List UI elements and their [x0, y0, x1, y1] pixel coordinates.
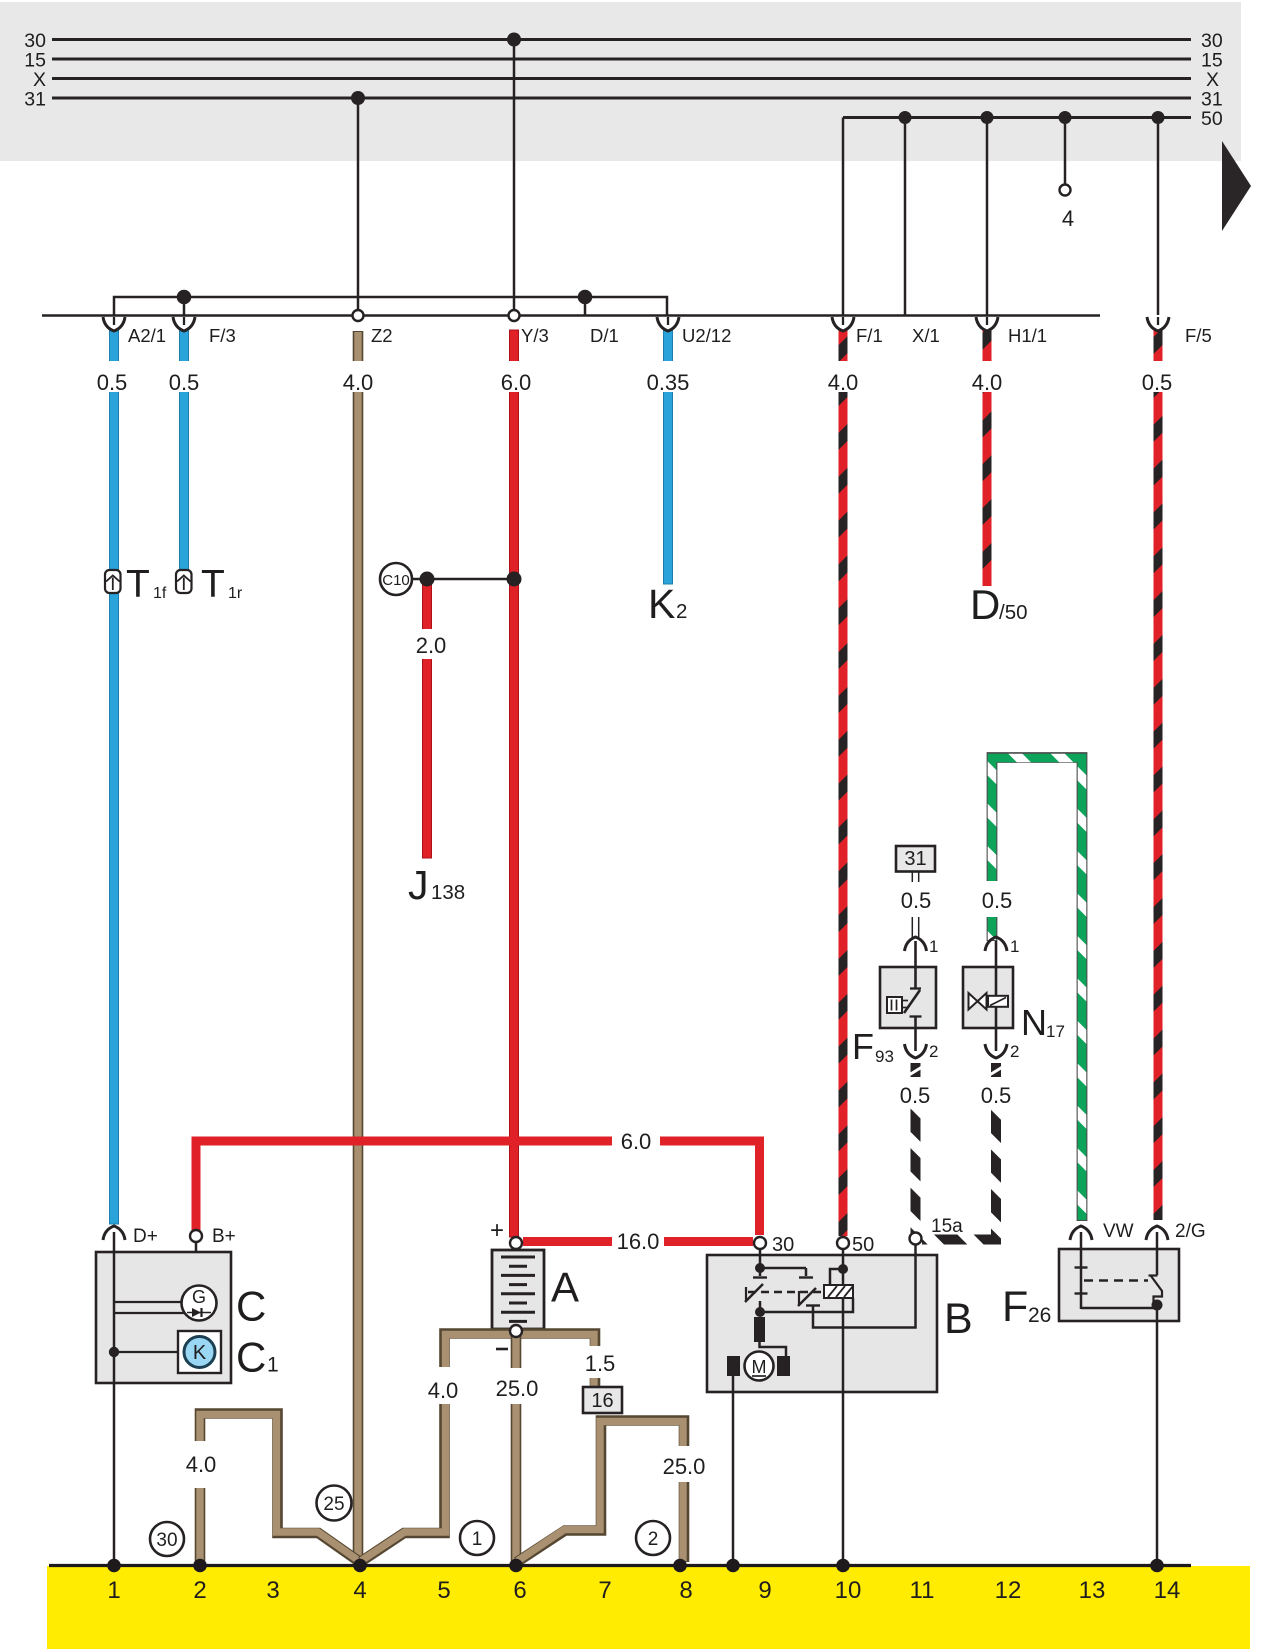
svg-text:Y/3: Y/3 [521, 325, 549, 346]
wire coil to track 10 [842, 1392, 845, 1563]
svg-text:1f: 1f [153, 585, 167, 602]
red wire 16.0 battery to starter 30 [523, 1237, 753, 1246]
track node 10 [836, 1559, 850, 1573]
brown wire track2 loop [200, 1414, 359, 1563]
connector N17 pin2 [985, 1042, 1019, 1061]
svg-text:C: C [236, 1334, 266, 1381]
svg-text:Z2: Z2 [371, 325, 393, 346]
motor M [727, 1352, 790, 1381]
gauge label 1.5 battery right [577, 1346, 615, 1378]
wire B+ into alternator [195, 1243, 198, 1288]
svg-text:4: 4 [1062, 206, 1074, 231]
svg-text:25.0: 25.0 [663, 1454, 706, 1479]
wire bus50 to rail F/5 [1157, 119, 1160, 315]
wire F26 bottom [1081, 1307, 1157, 1310]
gauge label 0.5 N17 bottom [978, 1077, 1015, 1108]
node F26 [1152, 1300, 1163, 1311]
connector F93 pin2 [905, 1042, 939, 1061]
track node 2 [193, 1559, 207, 1573]
green-white wire N17 loop [992, 758, 1082, 1222]
svg-text:4.0: 4.0 [828, 370, 859, 395]
label J138 [408, 862, 465, 908]
svg-text:2: 2 [676, 600, 687, 623]
label minus battery [496, 1348, 508, 1351]
node 4 on bus 50 [1059, 111, 1072, 124]
brown wire ground strap track6 to track8 [517, 1421, 684, 1563]
black stub F93 pin2 [909, 1063, 922, 1078]
brown wire Z2 [353, 331, 364, 1562]
svg-text:138: 138 [431, 881, 465, 904]
bus 50 [843, 116, 1191, 119]
battery A box [492, 1250, 544, 1329]
svg-text:2.0: 2.0 [416, 633, 447, 658]
gauge label 0.35 U2/12 [643, 361, 693, 395]
svg-text:0.5: 0.5 [169, 370, 200, 395]
svg-text:X/1: X/1 [912, 325, 940, 346]
relay coil [824, 1285, 853, 1298]
track node 6 [509, 1559, 523, 1573]
wire C ground to track 1 [113, 1232, 116, 1563]
right arrow [1222, 141, 1251, 231]
gauge label 6.0 Y/3 [496, 361, 536, 395]
gauge label 0.5 F/3 [164, 361, 204, 395]
rail connector F/1 [832, 317, 854, 331]
svg-text:25: 25 [323, 1494, 344, 1515]
svg-text:F/3: F/3 [209, 325, 236, 346]
label N17 [1021, 1002, 1065, 1043]
wire bus31 to rail Z2 [357, 99, 360, 315]
bus labels left [24, 30, 46, 111]
svg-text:30: 30 [156, 1530, 177, 1551]
svg-text:11: 11 [910, 1577, 935, 1604]
connector 2/G [1146, 1226, 1168, 1240]
wire 30 into box [759, 1250, 762, 1267]
fuse F26 box [1059, 1249, 1179, 1321]
switch blade left [745, 1284, 763, 1302]
svg-text:4: 4 [353, 1577, 366, 1604]
svg-text:5: 5 [437, 1577, 450, 1604]
svg-text:31: 31 [904, 848, 926, 870]
brown wire battery 25.0 to track 6 [511, 1335, 522, 1562]
bus 15 [52, 58, 1191, 61]
svg-text:10: 10 [835, 1577, 862, 1604]
wire bus50 to rail X/1 [904, 119, 907, 315]
bus X [52, 77, 1191, 80]
bus labels right [1201, 30, 1223, 130]
track node 4 [353, 1559, 367, 1573]
battery plates [501, 1257, 535, 1321]
red-black wire F/5 [1154, 330, 1163, 1220]
svg-text:0.5: 0.5 [900, 1083, 931, 1108]
bus 31 [52, 97, 1191, 100]
wire C ground inside [113, 1252, 116, 1383]
svg-text:13: 13 [1079, 1577, 1106, 1604]
svg-text:1: 1 [107, 1577, 120, 1604]
wire 50 into box [842, 1250, 845, 1393]
svg-text:0.5: 0.5 [982, 888, 1013, 913]
node C10 at Y/3 [507, 572, 522, 587]
rail terminal Z2 [353, 310, 364, 321]
node C10 red [420, 572, 435, 587]
resistor [754, 1317, 765, 1342]
svg-text:6.0: 6.0 [501, 370, 532, 395]
switch blade right [798, 1288, 816, 1306]
svg-text:50: 50 [852, 1234, 874, 1256]
connector C10 circle [380, 563, 412, 595]
svg-text:1: 1 [267, 1354, 279, 1377]
starter B box [707, 1255, 937, 1392]
tick VW upper [1075, 1266, 1088, 1268]
svg-text:0.5: 0.5 [981, 1083, 1012, 1108]
svg-text:F/1: F/1 [856, 325, 883, 346]
actuation dashed link [748, 1291, 824, 1293]
svg-text:26: 26 [1028, 1304, 1051, 1327]
svg-text:0.35: 0.35 [647, 370, 690, 395]
wire to generator G upper [114, 1301, 183, 1303]
blue wire A2/1 [110, 330, 119, 1224]
node X/1 on bus 50 [899, 111, 912, 124]
rail [42, 314, 1100, 317]
svg-text:1: 1 [472, 1529, 483, 1550]
gauge label 0.5 F/5 [1137, 361, 1177, 395]
terminal starter 30 [754, 1237, 766, 1249]
wire 15a to blade right [813, 1255, 916, 1328]
gauge label 0.5 F93 bottom [897, 1077, 934, 1108]
terminal starter 50 [837, 1237, 849, 1249]
svg-text:K: K [648, 581, 675, 627]
regulator C1 box [178, 1331, 221, 1373]
svg-text:4.0: 4.0 [343, 370, 374, 395]
node on bus 30 [507, 33, 521, 47]
contact drop right [799, 1268, 813, 1278]
ground symbol 1 [460, 1521, 494, 1555]
dashed link F26 [1084, 1279, 1148, 1281]
bottom yellow band [47, 1566, 1250, 1649]
svg-text:4.0: 4.0 [186, 1452, 217, 1477]
terminal 15a [910, 1233, 922, 1245]
label F26 [1002, 1283, 1051, 1331]
wire contact bridge [760, 1267, 806, 1270]
connector VW [1070, 1226, 1092, 1240]
node on bus 31 [351, 91, 365, 105]
track node 8 [673, 1559, 687, 1573]
svg-text:T: T [126, 563, 150, 606]
svg-text:0.5: 0.5 [97, 370, 128, 395]
svg-text:31: 31 [24, 89, 46, 111]
svg-text:25.0: 25.0 [496, 1376, 539, 1401]
svg-text:VW: VW [1103, 1221, 1134, 1242]
label C1 [236, 1334, 279, 1381]
gauge label 25.0 battery [492, 1368, 540, 1404]
wire motor to track 9 [732, 1374, 735, 1563]
svg-text:D+: D+ [133, 1226, 158, 1247]
rail connector U2/12 [657, 317, 679, 331]
bus 30 [52, 38, 1191, 41]
red-black wire F/1 [839, 330, 848, 1236]
gauge label 0.5 N17 top [978, 881, 1016, 917]
switch F26 [1149, 1276, 1163, 1303]
rail terminal Y/3 [509, 310, 520, 321]
terminal battery plus [510, 1237, 522, 1249]
svg-text:F: F [1002, 1283, 1028, 1331]
svg-text:H1/1: H1/1 [1008, 325, 1047, 346]
svg-text:C: C [236, 1283, 266, 1330]
svg-text:B: B [944, 1295, 973, 1343]
red wire 6.0 B+ to starter 30 [196, 1141, 760, 1235]
contact drop left [753, 1268, 767, 1278]
svg-text:1: 1 [929, 937, 938, 956]
alternator C box [96, 1252, 231, 1383]
ground box 31 [896, 846, 935, 872]
svg-text:/50: /50 [999, 601, 1028, 624]
svg-text:D/1: D/1 [590, 325, 619, 346]
connector F93 pin1 [905, 937, 939, 956]
red-black wire H1/1 [983, 330, 992, 586]
node F/3 bracket [177, 290, 192, 305]
terminal battery minus [510, 1325, 522, 1337]
double wire below 31 box [912, 873, 918, 940]
label K2 [648, 581, 687, 627]
wire bus50 to rail H1/1 [986, 119, 989, 315]
bracket wire above rail [114, 297, 667, 315]
brown wire battery minus left 4.0 [361, 1334, 520, 1562]
label T1f [126, 563, 167, 606]
svg-text:12: 12 [995, 1577, 1022, 1604]
blue wire F/3 [180, 330, 189, 572]
wire 15a into box [914, 1245, 917, 1256]
svg-text:30: 30 [772, 1234, 794, 1256]
svg-text:6: 6 [513, 1577, 526, 1604]
svg-text:F: F [852, 1026, 874, 1067]
node F/5 on bus 50 [1152, 111, 1165, 124]
svg-text:4.0: 4.0 [428, 1378, 459, 1403]
rail connector H1/1 [976, 317, 998, 331]
svg-text:D: D [970, 581, 1000, 628]
wire to regulator K [114, 1351, 178, 1353]
svg-text:G: G [192, 1287, 206, 1307]
bracket stub F/3 [183, 297, 186, 315]
svg-text:8: 8 [679, 1577, 692, 1604]
rail connector A2/1 [103, 317, 125, 331]
gauge label 25.0 strap [658, 1446, 710, 1482]
svg-text:14: 14 [1154, 1577, 1181, 1604]
gauge label 0.5 A2/1 [92, 361, 132, 395]
svg-text:2: 2 [193, 1577, 206, 1604]
track numbers [107, 1577, 1180, 1604]
black-white wire F93 pin2 to 15a [911, 1063, 921, 1233]
connector T1f [105, 570, 121, 593]
svg-text:9: 9 [758, 1577, 771, 1604]
wire VW inside [1080, 1232, 1083, 1309]
wire to generator G lower [114, 1312, 185, 1314]
black stub N17 pin2 [990, 1063, 1003, 1078]
wire blade left to node [759, 1301, 762, 1312]
wire C10 link [408, 578, 521, 581]
terminal 4 open circle [1060, 185, 1071, 196]
wire bus50 corner to rail F/1 [842, 118, 845, 316]
svg-text:B+: B+ [212, 1226, 236, 1247]
svg-text:T: T [201, 563, 225, 606]
svg-text:M: M [752, 1357, 767, 1377]
contact bar blade right lower [806, 1304, 820, 1306]
wire bus30 to rail Y/3 [513, 41, 516, 315]
tick VW lower [1075, 1292, 1088, 1294]
svg-text:A2/1: A2/1 [128, 325, 166, 346]
label 6.0 [612, 1129, 660, 1154]
top gray band [0, 2, 1241, 161]
track line [49, 1564, 1191, 1567]
track node 14 [1150, 1559, 1164, 1573]
svg-text:2: 2 [929, 1042, 938, 1061]
valve N17 [963, 941, 1013, 1051]
bracket stub D/1 [584, 297, 587, 315]
svg-text:1: 1 [1010, 937, 1019, 956]
track node 9 [726, 1559, 740, 1573]
node starter 50 [838, 1264, 848, 1274]
splice 16 box [583, 1387, 622, 1413]
red wire C10 to J138 [423, 585, 432, 858]
label T1r [201, 563, 243, 606]
node C1 link [109, 1347, 119, 1357]
svg-text:0.5: 0.5 [1142, 370, 1173, 395]
track node 1 [107, 1559, 121, 1573]
ground symbol 2 [636, 1521, 670, 1555]
label 16.0 [612, 1229, 664, 1254]
terminal B+ [190, 1230, 202, 1242]
svg-text:50: 50 [1201, 108, 1223, 130]
node resistor top [755, 1307, 765, 1317]
svg-text:U2/12: U2/12 [682, 325, 731, 346]
rail connector F/5 [1147, 317, 1169, 331]
svg-text:0.5: 0.5 [901, 888, 932, 913]
wire coil to node [760, 1298, 853, 1312]
gauge label 4.0 track2 loop [182, 1441, 219, 1488]
gauge label 2.0 [408, 629, 446, 659]
svg-text:7: 7 [598, 1577, 611, 1604]
rail connector F/3 [173, 317, 195, 331]
svg-text:16.0: 16.0 [617, 1229, 660, 1254]
gauge label 4.0 battery left [426, 1367, 463, 1404]
brown wire battery minus right 1.5 [512, 1334, 595, 1388]
label D/50 [970, 581, 1028, 628]
svg-text:16: 16 [591, 1390, 613, 1412]
svg-text:93: 93 [875, 1047, 894, 1066]
label F93 [852, 1026, 894, 1067]
connector D+ [103, 1226, 125, 1240]
connector T1r [176, 570, 192, 593]
black-white wire N17 pin2 to 15a [922, 1063, 996, 1240]
node H1/1 on bus 50 [981, 111, 994, 124]
generator G [182, 1286, 217, 1321]
switch F93 [880, 941, 936, 1051]
svg-text:2: 2 [648, 1529, 659, 1550]
svg-text:C10: C10 [382, 572, 410, 589]
svg-text:K: K [193, 1342, 207, 1364]
svg-text:2/G: 2/G [1175, 1221, 1206, 1242]
wire F26 to track 14 [1156, 1305, 1159, 1563]
node starter 30 [755, 1263, 765, 1273]
ground symbol 25 [317, 1486, 352, 1521]
svg-text:4.0: 4.0 [972, 370, 1003, 395]
svg-text:1.5: 1.5 [585, 1351, 616, 1376]
svg-text:6.0: 6.0 [621, 1129, 652, 1154]
svg-text:A: A [551, 1264, 579, 1311]
svg-text:1r: 1r [228, 585, 243, 602]
connector N17 pin1 [985, 937, 1019, 956]
wire resistor to motor [760, 1342, 787, 1357]
svg-text:F/5: F/5 [1185, 325, 1212, 346]
gauge label 4.0 F/1 [823, 361, 863, 395]
svg-text:15a: 15a [931, 1216, 963, 1237]
blue wire U2/12 [664, 330, 673, 584]
stub wire 4 [1064, 119, 1067, 185]
gauge label 4.0 Z2 [338, 361, 378, 395]
wire 50 to coil [830, 1269, 843, 1285]
svg-text:3: 3 [266, 1577, 279, 1604]
gauge label 4.0 H1/1 [967, 361, 1007, 395]
svg-text:+: + [490, 1217, 504, 1244]
svg-text:2: 2 [1010, 1042, 1019, 1061]
svg-text:J: J [408, 862, 429, 908]
ground symbol 30 [150, 1522, 184, 1556]
wire 2/G inside [1156, 1232, 1159, 1275]
node D/1 bracket [578, 290, 593, 305]
red wire Y/3 [510, 330, 519, 1237]
svg-text:N: N [1021, 1002, 1047, 1043]
svg-text:17: 17 [1046, 1022, 1065, 1041]
